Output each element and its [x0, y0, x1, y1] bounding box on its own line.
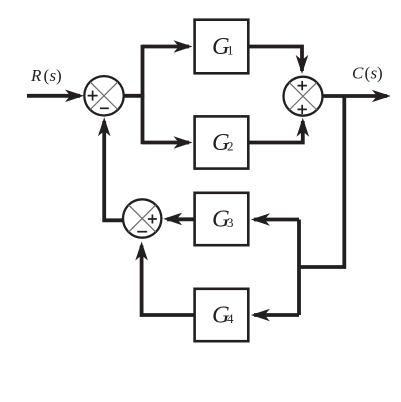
arrowhead into G4 (pointing left) — [251, 309, 270, 322]
summing junction S1 — [84, 76, 123, 115]
arrowhead into S3 from G3 (pointing left) — [163, 213, 182, 226]
wire G2 output to summer S2 bottom — [249, 121, 303, 143]
arrowhead into S3 bottom (pointing up) — [135, 242, 148, 261]
wire into G4 input — [254, 313, 299, 317]
svg-text:4: 4 — [227, 311, 234, 326]
svg-text:3: 3 — [227, 215, 234, 230]
block G4 — [195, 289, 249, 341]
wire S1 output to branch point — [124, 94, 144, 98]
wire G3 output to summer S3 — [167, 217, 194, 221]
arrowhead into G1 — [174, 40, 193, 53]
block G1 — [195, 20, 249, 74]
summing junction S2 — [284, 77, 323, 116]
arrowhead output C(s) — [372, 90, 391, 103]
svg-text:2: 2 — [227, 138, 234, 153]
svg-text:): ) — [56, 66, 62, 85]
summing junction S3 — [123, 199, 161, 237]
svg-text:1: 1 — [227, 42, 234, 57]
block G2 — [195, 116, 249, 168]
arrowhead into S1 from R(s) — [65, 90, 84, 103]
arrowhead into S2 bottom (pointing up) — [297, 118, 310, 137]
wire branch to G1 input — [143, 45, 190, 49]
arrowhead into S2 top (pointing down) — [296, 55, 309, 74]
svg-text:R: R — [30, 66, 42, 85]
wire branch to G2 input — [143, 141, 190, 145]
S3 plus sign (right input) — [148, 215, 157, 224]
svg-text:): ) — [377, 64, 383, 83]
wire G4 output to summer S3 bottom — [142, 246, 194, 316]
svg-text:C: C — [352, 64, 364, 83]
wire S3 output up to summer S1 bottom — [104, 121, 123, 220]
S3 minus sign (bottom input) — [137, 231, 147, 233]
wire G1 output to summer S2 top — [249, 47, 303, 72]
wire feedback vertical between G3 and G4 rows — [297, 220, 301, 316]
S2 plus sign (top input) — [298, 81, 307, 90]
S1 minus sign (bottom input) — [100, 107, 109, 109]
arrowhead into S1 bottom (pointing up) — [98, 117, 111, 136]
wire input R(s) into summer S1 — [27, 94, 80, 98]
wire S2 output to C(s) — [324, 94, 388, 98]
arrowhead into G3 (pointing left) — [251, 213, 270, 226]
arrowhead into G2 — [174, 136, 193, 149]
wire into G3 input — [254, 218, 299, 222]
S2 plus sign (bottom input) — [298, 105, 307, 114]
S1 plus sign (left input) — [88, 91, 98, 101]
wire feedback takeoff down from output line — [299, 96, 344, 267]
wire branch vertical between G1 and G2 rows — [141, 45, 145, 145]
block G3 — [195, 193, 249, 245]
